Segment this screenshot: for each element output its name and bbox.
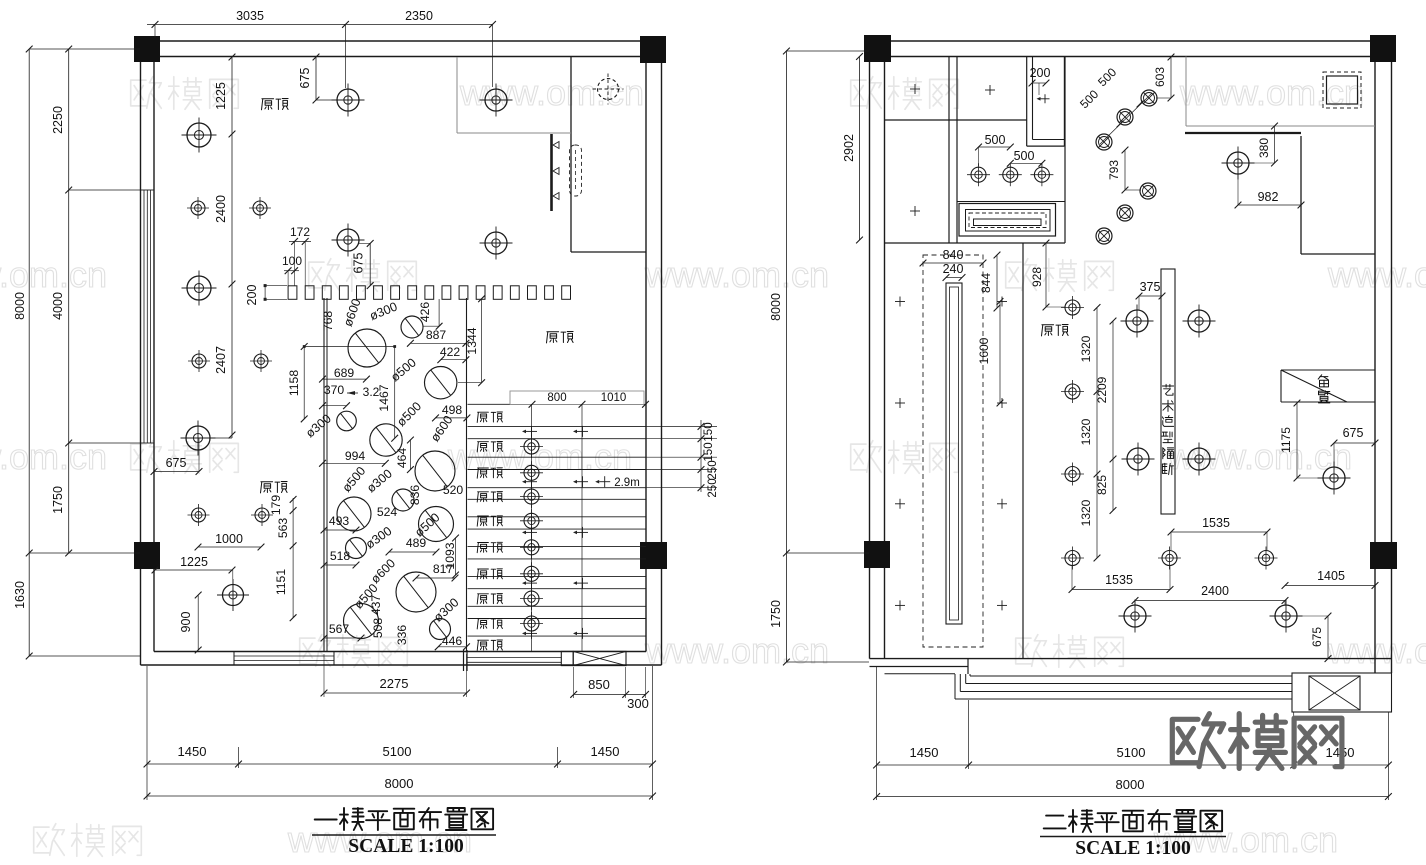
ceiling light	[332, 224, 365, 257]
fixture: square column box	[1323, 72, 1361, 108]
downlight X	[1096, 228, 1112, 244]
svg-text:240: 240	[943, 262, 964, 276]
ceiling circle feature d600	[415, 451, 455, 491]
column: right plan mid-right	[1370, 542, 1397, 569]
dimension line: inner left chain	[68, 49, 70, 553]
column: right plan mid-left	[864, 541, 890, 568]
svg-text:www.om.cn: www.om.cn	[1179, 72, 1364, 113]
extension line	[786, 552, 869, 554]
svg-text:836: 836	[408, 485, 422, 506]
svg-text:150: 150	[703, 422, 715, 441]
appliance: warming cabinet	[957, 201, 1065, 203]
title: second floor plan	[1044, 810, 1222, 832]
downlight X	[1140, 183, 1156, 199]
dimension 1225	[155, 569, 232, 571]
ceiling light	[480, 84, 513, 117]
plus mark	[910, 206, 920, 216]
wall: left plan bottom wall outer	[141, 664, 662, 666]
wall: right plan top wall inner	[885, 56, 1375, 58]
dimension 1175	[1296, 403, 1298, 478]
dim line 689	[323, 378, 367, 380]
svg-text:1344: 1344	[465, 327, 479, 354]
svg-text:8000: 8000	[769, 293, 783, 321]
svg-text:524: 524	[377, 505, 398, 519]
ceiling light	[182, 118, 217, 153]
dim line 370	[323, 405, 347, 407]
extension line	[69, 442, 140, 444]
svg-text:3.2: 3.2	[363, 385, 380, 399]
svg-text:1151: 1151	[274, 569, 288, 595]
svg-text:370: 370	[324, 383, 345, 397]
light dim line	[199, 437, 232, 439]
bay steps	[967, 659, 969, 674]
partition: block right	[1064, 57, 1066, 244]
svg-text:1320: 1320	[1079, 335, 1093, 362]
ceiling light	[1119, 600, 1152, 633]
ceiling light	[1121, 305, 1154, 338]
dimension line: right bottom chain	[877, 764, 1389, 766]
dimension 2209	[1112, 321, 1114, 459]
ceiling light	[1318, 462, 1351, 495]
extension line	[146, 666, 148, 800]
label yuanding	[1042, 325, 1069, 336]
svg-text:793: 793	[1107, 160, 1121, 180]
svg-text:567: 567	[329, 622, 350, 636]
svg-text:1000: 1000	[215, 532, 243, 546]
dim line 1467	[394, 347, 396, 439]
ceiling circle feature d500	[425, 367, 457, 399]
ceiling light	[251, 504, 273, 526]
svg-text:800: 800	[547, 392, 566, 404]
dim line link	[304, 346, 395, 348]
extension line	[652, 666, 654, 800]
wall: left plan right wall outer	[661, 41, 663, 665]
ceiling light	[480, 227, 513, 260]
dimension line: top chain	[147, 23, 493, 25]
ceiling circle feature d600	[348, 329, 386, 367]
ceiling light	[217, 579, 249, 611]
dim line 887	[410, 342, 466, 344]
svg-text:1450: 1450	[591, 744, 620, 759]
ceiling light: dashed	[593, 74, 624, 105]
svg-text:489: 489	[406, 536, 427, 550]
wall: left plan top wall inner	[154, 56, 648, 58]
dim line slats	[700, 420, 702, 492]
ceiling light	[1122, 443, 1155, 476]
svg-text:200: 200	[1030, 66, 1051, 80]
dimension 240	[946, 277, 962, 279]
dimension 300	[626, 693, 646, 695]
svg-text:1010: 1010	[601, 392, 627, 404]
ceiling diffuser row	[288, 286, 570, 300]
svg-text:5100: 5100	[383, 744, 412, 759]
partition: corridor right	[1022, 243, 1024, 659]
dimension 603	[1170, 57, 1172, 98]
ceiling circle feature d600	[396, 572, 436, 612]
extension line	[1293, 712, 1295, 769]
slat labels and lights	[477, 412, 543, 650]
ceiling circle feature d500	[419, 507, 454, 542]
svg-text:928: 928	[1030, 267, 1044, 287]
extension line	[492, 24, 494, 87]
dim line	[292, 498, 294, 618]
wall: left plan left wall inner	[153, 57, 155, 652]
svg-text:1405: 1405	[1317, 569, 1345, 583]
svg-text:675: 675	[298, 68, 312, 89]
svg-text:518: 518	[330, 549, 351, 563]
extension line	[69, 189, 140, 191]
dimension 2902	[859, 57, 861, 241]
svg-text:1320: 1320	[1079, 499, 1093, 526]
svg-text:500: 500	[985, 133, 1006, 147]
svg-text:464: 464	[395, 448, 409, 469]
svg-text:250: 250	[707, 478, 719, 497]
ceiling light	[967, 163, 990, 186]
dimension 844	[996, 255, 998, 308]
wall: left plan top wall outer	[140, 40, 662, 42]
wall: right plan right wall inner	[1374, 57, 1376, 674]
svg-text:675: 675	[1310, 627, 1324, 647]
dimension 840	[923, 262, 983, 264]
wall: right room	[1185, 132, 1301, 134]
svg-text:www.om.cn: www.om.cn	[1167, 436, 1352, 477]
dim line 1344	[481, 299, 483, 383]
ceiling light	[188, 350, 210, 372]
downlight X	[1117, 109, 1133, 125]
svg-text:2350: 2350	[405, 9, 433, 23]
corridor plus marks	[895, 297, 1007, 611]
label pantry	[1318, 375, 1330, 403]
ceiling light	[1061, 380, 1084, 403]
wall: right plan bottom	[870, 658, 1392, 660]
dashed fixture outline	[570, 145, 582, 196]
label yuanding	[262, 99, 289, 110]
ceiling light	[1222, 147, 1255, 180]
svg-text:900: 900	[179, 612, 193, 633]
dimension 1320 chain	[1096, 308, 1098, 559]
svg-text:200: 200	[245, 285, 259, 306]
svg-text:500: 500	[1014, 149, 1035, 163]
dim line	[389, 551, 436, 553]
partition: top-right room wall	[570, 57, 572, 253]
column: right plan top-right	[1370, 35, 1396, 62]
svg-text:375: 375	[1140, 280, 1161, 294]
striped ceiling slats	[468, 404, 647, 636]
dimension 850	[574, 693, 626, 695]
svg-text:179: 179	[269, 495, 283, 516]
partition line	[466, 298, 468, 652]
svg-text:2400: 2400	[1201, 584, 1229, 598]
svg-text:2209: 2209	[1095, 376, 1109, 403]
title underline	[312, 834, 496, 836]
svg-text:1750: 1750	[769, 600, 783, 628]
ceiling circle feature d500	[337, 497, 371, 531]
dimension line: 675	[315, 57, 317, 100]
svg-text:675: 675	[352, 253, 366, 274]
svg-text:675: 675	[166, 456, 187, 470]
dim line 994	[323, 462, 386, 464]
ceiling circle feature d500	[370, 424, 402, 456]
wall: right plan top wall outer	[869, 40, 1391, 42]
svg-text:840: 840	[943, 248, 964, 262]
wall: left plan bottom wall inner	[154, 651, 646, 653]
partition: block bottom	[885, 242, 1066, 244]
svg-text:817: 817	[433, 562, 454, 576]
ceiling light	[332, 84, 365, 117]
dim line	[455, 538, 457, 575]
label art partition	[1162, 384, 1174, 474]
column: left plan mid-left	[134, 542, 160, 569]
ceiling light	[181, 421, 216, 456]
partition: room divider h	[885, 119, 1028, 121]
partition: gray room boundary	[456, 57, 458, 133]
svg-text:2902: 2902	[842, 134, 856, 162]
svg-text:100: 100	[282, 254, 302, 268]
svg-text:1450: 1450	[910, 745, 939, 760]
dim line 498	[436, 417, 467, 419]
svg-text:1630: 1630	[13, 581, 27, 609]
svg-text:5100: 5100	[1117, 745, 1146, 760]
dimension 1000	[198, 546, 261, 548]
extension line	[345, 24, 347, 88]
svg-text:172: 172	[290, 225, 310, 239]
dim line 464	[409, 440, 411, 470]
svg-text:2400: 2400	[214, 195, 228, 223]
window: bottom-mid window	[467, 656, 561, 658]
shaft with X: right plan	[1292, 673, 1392, 712]
ceiling circle feature d300	[346, 538, 367, 559]
dim line	[324, 529, 356, 531]
svg-text:2.9m: 2.9m	[614, 477, 640, 489]
svg-text:1320: 1320	[1079, 418, 1093, 445]
wall: left plan right wall inner	[645, 57, 647, 652]
dimension 675	[154, 471, 199, 473]
window: bottom-left window	[234, 655, 334, 657]
window: left wall glazing	[143, 190, 145, 443]
dimension 800/1010	[529, 401, 536, 408]
svg-text:2250: 2250	[51, 106, 65, 134]
dim line 1158	[303, 347, 305, 419]
svg-text:768: 768	[321, 311, 335, 332]
partition line	[323, 298, 325, 652]
extension line	[29, 48, 140, 50]
dimension line: 1225/2400/2407	[231, 57, 233, 438]
wall: right plan left wall inner	[884, 57, 886, 659]
dim line 426	[438, 299, 440, 326]
ceiling light	[1061, 547, 1084, 570]
dimension 900	[197, 595, 199, 650]
ceiling light	[999, 163, 1022, 186]
ceiling light	[1270, 600, 1303, 633]
column: left plan top-right	[640, 36, 666, 63]
svg-text:1175: 1175	[1279, 427, 1293, 453]
dimension line: right outer chain	[785, 51, 787, 662]
dim line 446	[438, 646, 466, 648]
ceiling light	[188, 504, 210, 526]
ceiling circle feature d500	[344, 604, 379, 639]
svg-text:2407: 2407	[214, 346, 228, 374]
shaft with X: left plan bottom right	[561, 651, 573, 665]
extension line	[876, 666, 878, 800]
platform boundary gray	[1185, 57, 1187, 127]
extension line	[238, 747, 240, 768]
column: right plan top-left	[864, 35, 891, 62]
big watermark oumowang	[1172, 714, 1342, 769]
svg-text:www.om.cn: www.om.cn	[644, 630, 829, 671]
svg-text:493: 493	[329, 514, 350, 528]
svg-text:1750: 1750	[51, 486, 65, 514]
extension line	[29, 552, 140, 554]
ceiling light	[1030, 163, 1053, 186]
extension line	[1387, 712, 1389, 800]
extension line	[557, 747, 559, 768]
label yuanding	[547, 332, 574, 343]
annotation box 800/1010	[510, 391, 644, 404]
svg-text:1158: 1158	[287, 370, 301, 396]
ceiling light	[1158, 547, 1181, 570]
dimension line: bottom chain 1450/5100/1450	[147, 763, 653, 765]
svg-text:675: 675	[1343, 426, 1364, 440]
svg-text:1535: 1535	[1105, 573, 1133, 587]
corridor dashed outline	[923, 255, 983, 647]
door frame: bottom entry	[463, 650, 465, 671]
downlight X	[1141, 90, 1157, 106]
dimension 380	[1274, 126, 1276, 163]
ceiling circle feature d300	[392, 489, 414, 511]
label yuanding	[261, 482, 288, 493]
slat extension lines	[646, 426, 717, 487]
extension line	[968, 700, 970, 769]
svg-text:3035: 3035	[236, 9, 264, 23]
wall: hatch display wall	[550, 134, 553, 211]
downlight X	[1096, 134, 1112, 150]
dimension 825	[1112, 459, 1114, 511]
wall: left plan left wall outer	[140, 41, 142, 665]
ceiling light	[1183, 443, 1216, 476]
dimension 793	[1124, 150, 1126, 190]
svg-text:850: 850	[588, 677, 610, 692]
closet top right	[1026, 57, 1028, 147]
svg-text:844: 844	[979, 273, 993, 293]
dimension 172	[289, 240, 311, 242]
dim line 422	[441, 359, 466, 361]
ceiling light	[1255, 547, 1278, 570]
ceiling light	[1183, 305, 1216, 338]
svg-text:SCALE 1:100: SCALE 1:100	[1075, 838, 1190, 859]
dimension 675 v	[1327, 616, 1329, 659]
slat plus marks	[522, 426, 588, 639]
ceiling light	[182, 271, 217, 306]
ceiling light	[1061, 463, 1084, 486]
extension line	[786, 50, 869, 52]
dimension line: outer left chain	[28, 49, 30, 656]
ceiling light	[249, 197, 271, 219]
title underline	[1040, 836, 1226, 838]
label 2.9m	[595, 476, 610, 487]
svg-text:1535: 1535	[1202, 516, 1230, 530]
dimension line: 675	[369, 243, 371, 285]
dim line	[324, 637, 361, 639]
svg-text:1225: 1225	[214, 82, 228, 110]
svg-text:689: 689	[334, 366, 355, 380]
dimension 2275	[324, 692, 467, 694]
extension line	[786, 661, 869, 663]
partition: room divider v1	[948, 57, 950, 244]
column: left plan top-left	[134, 36, 160, 62]
title: first floor plan	[315, 808, 493, 830]
dim line	[416, 577, 455, 579]
svg-text:1450: 1450	[178, 744, 207, 759]
light drop line	[232, 570, 234, 595]
ceiling light	[250, 350, 272, 372]
svg-text:426: 426	[418, 302, 432, 323]
wall: right plan left wall outer	[869, 41, 871, 659]
svg-text:www.om.cn: www.om.cn	[1327, 254, 1426, 295]
svg-text:1225: 1225	[180, 555, 208, 569]
svg-text:SCALE 1:100: SCALE 1:100	[348, 836, 463, 857]
svg-text:www.om.cn: www.om.cn	[1327, 630, 1426, 671]
svg-text:994: 994	[345, 449, 366, 463]
svg-text:887: 887	[426, 328, 447, 342]
extension line	[154, 24, 156, 38]
ceiling circle feature d300	[401, 316, 423, 338]
extension line	[29, 655, 140, 657]
wall: right plan right wall outer	[1391, 41, 1393, 673]
svg-text:498: 498	[442, 403, 463, 417]
plus mark	[910, 84, 920, 94]
svg-text:336: 336	[395, 625, 409, 646]
ceiling circle feature d300	[337, 411, 357, 431]
light trough	[946, 283, 962, 624]
svg-text:8000: 8000	[1116, 777, 1145, 792]
svg-text:8000: 8000	[385, 776, 414, 791]
svg-text:508: 508	[371, 618, 385, 639]
svg-text:www.om.cn: www.om.cn	[0, 436, 107, 477]
plus mark	[985, 85, 995, 95]
svg-text:446: 446	[442, 634, 463, 648]
svg-text:380: 380	[1257, 138, 1271, 158]
svg-text:150: 150	[703, 442, 715, 461]
light column line	[531, 404, 533, 652]
svg-text:520: 520	[443, 483, 464, 497]
plus mark	[1037, 94, 1050, 103]
dimension 1600	[999, 302, 1001, 404]
dimension 928	[1045, 243, 1047, 307]
ceiling light	[187, 197, 209, 219]
svg-text:1600: 1600	[977, 337, 991, 364]
svg-text:825: 825	[1095, 475, 1109, 495]
svg-text:563: 563	[276, 518, 290, 539]
diagonal dim 500	[1100, 93, 1152, 144]
svg-text:4000: 4000	[51, 292, 65, 320]
dimension 100	[284, 270, 299, 272]
svg-text:www.om.cn: www.om.cn	[0, 254, 107, 295]
ceiling light	[1061, 296, 1084, 319]
pantry flag	[1281, 369, 1375, 371]
svg-text:250: 250	[707, 460, 719, 479]
bracket marks on display wall	[553, 142, 559, 149]
svg-text:982: 982	[1258, 190, 1279, 204]
light column line	[581, 404, 583, 652]
dimension line: bottom chain 8000	[147, 795, 653, 797]
svg-text:www.om.cn: www.om.cn	[447, 436, 632, 477]
svg-text:2275: 2275	[380, 676, 409, 691]
svg-text:603: 603	[1153, 67, 1167, 87]
svg-text:300: 300	[627, 696, 649, 711]
dimension line: right bottom 8000	[877, 796, 1389, 798]
svg-text:8000: 8000	[13, 292, 27, 320]
dimension 200	[264, 286, 266, 300]
